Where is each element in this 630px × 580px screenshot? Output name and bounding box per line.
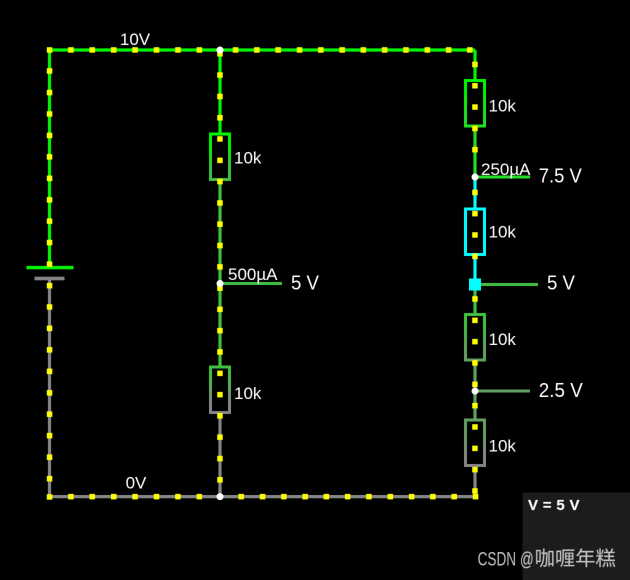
wire stub: 250uA / 7.5V probe at right node — [476, 176, 530, 179]
svg-text:10V: 10V — [120, 30, 151, 49]
wire stub: 500uA / 5V probe at middle node — [221, 282, 282, 285]
svg-text:10k: 10k — [234, 384, 262, 403]
node: selected post (cyan square) at right 5V node — [469, 279, 481, 291]
node: middle 5V junction (500uA) — [217, 280, 224, 287]
node: top junction of middle branch — [217, 47, 224, 54]
wire: bottom rail 0V — [48, 495, 477, 498]
wire: right branch bottom lead 0V — [473, 466, 476, 497]
battery B1 10V positive plate — [27, 266, 74, 269]
wire: selected resistor lower lead (cyan) — [473, 255, 476, 285]
wire: left branch lower (battery - lead, 0V) — [48, 280, 51, 497]
svg-text:10k: 10k — [489, 330, 517, 349]
info panel background — [523, 493, 630, 580]
svg-text:5 V: 5 V — [291, 272, 319, 295]
wire: right branch top lead 10V — [473, 50, 476, 81]
svg-text:CSDN @: CSDN @ — [478, 550, 534, 571]
node: bottom junction of middle branch — [217, 493, 224, 500]
wire: middle branch 5V segment between R1 and node — [218, 180, 221, 368]
wire: right branch 7.5V segment — [473, 126, 476, 177]
svg-text:10k: 10k — [234, 149, 262, 168]
watermark chinese glyphs — [536, 548, 615, 567]
wire: middle branch bottom lead 0V — [218, 413, 221, 497]
wire: selected resistor leads (cyan) — [473, 177, 476, 209]
svg-text:5 V: 5 V — [547, 272, 575, 295]
svg-text:10k: 10k — [489, 223, 517, 242]
node: right 2.5V junction — [472, 388, 479, 395]
wire stub: 2.5V probe — [477, 390, 530, 393]
svg-text:0V: 0V — [126, 474, 147, 493]
svg-text:2.5 V: 2.5 V — [539, 379, 583, 402]
battery B1 negative plate — [35, 277, 65, 281]
node: right 7.5V junction (250uA) — [472, 174, 479, 181]
wire stub: 5V probe at selected node — [481, 283, 538, 286]
current dots: middle branch — [217, 51, 223, 483]
svg-text:7.5 V: 7.5 V — [539, 165, 582, 188]
wire: right branch 5V segment below selected node — [473, 285, 476, 315]
svg-text:V = 5 V: V = 5 V — [528, 497, 580, 514]
svg-text:10k: 10k — [489, 437, 517, 456]
current dots: left loop — [47, 47, 53, 500]
wire: left branch upper (battery + lead, 10V) — [48, 48, 51, 266]
svg-text:500µA: 500µA — [228, 265, 278, 284]
current dots: bottom rail — [68, 494, 478, 500]
wire: top rail 10V from battery+ to right branch — [50, 48, 476, 51]
wire: right branch 2.5V segment — [473, 360, 476, 420]
current dots: right branch — [472, 62, 478, 494]
current dots: top rail — [68, 47, 472, 53]
wire: middle branch top lead 10V — [218, 50, 221, 134]
svg-text:10k: 10k — [489, 97, 517, 116]
svg-text:250µA: 250µA — [481, 160, 531, 179]
